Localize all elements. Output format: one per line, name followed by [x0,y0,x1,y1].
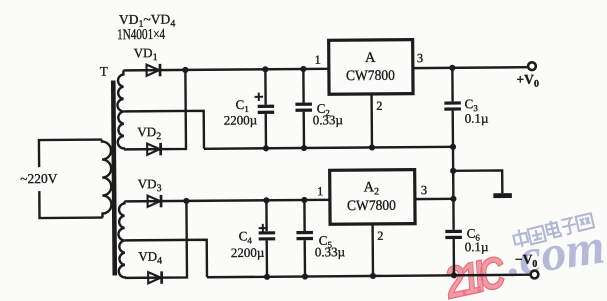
wire bottom rail [207,275,530,278]
capacitor C4 [258,200,275,277]
svg-text:2200µ: 2200µ [224,112,258,127]
junction node C2 top [300,66,306,72]
transformer T primary winding [102,140,112,218]
junction node C6 bottom [451,272,457,278]
svg-text:3: 3 [421,183,427,197]
svg-text:A: A [365,50,376,66]
junction node bus / upper ground [450,144,456,150]
wire upper ground bus [204,147,453,149]
wire VD4 branch [124,201,187,278]
junction node bus / ground tap [450,168,456,174]
plus sign C1 [255,93,264,101]
regulator U2 A2 CW7800 [330,170,415,225]
junction node C5 bottom [302,273,308,279]
svg-text:3: 3 [417,51,423,65]
junction node pin2 U2 / bottom rail [370,273,376,279]
capacitor C2 [295,69,312,148]
wire S2 top lead / lower pin1 rail [124,200,328,202]
svg-text:~220V: ~220V [20,171,58,186]
junction node pin2 U1 / ground bus [369,144,375,150]
pseudo CJK glyphs [512,228,529,249]
svg-text:VD1: VD1 [134,45,158,63]
wire U2 pin3 to bus [415,198,453,201]
plus sign C4 [259,224,268,232]
diode VD4 [148,271,163,284]
svg-text:T: T [100,64,108,79]
svg-text:2200µ: 2200µ [231,245,265,260]
junction node C4 bottom [264,274,270,280]
terminal -V0 [531,271,539,279]
svg-text:0.1µ: 0.1µ [465,111,489,126]
capacitor C6 [445,230,462,276]
svg-text:+V0: +V0 [516,72,539,90]
capacitor C3 [444,68,461,111]
pin 2 wire U2 [371,224,374,276]
transformer secondary winding S1 [117,70,124,149]
diode VD2 [147,143,162,156]
svg-text:VD4: VD4 [138,249,162,267]
junction node C1 top [262,66,268,72]
terminal +V0 [528,62,536,70]
junction node top rail / VD2 [182,67,188,73]
svg-text:VD2: VD2 [137,124,161,142]
svg-text:1: 1 [314,53,320,67]
svg-text:2: 2 [376,99,382,113]
wire S2 center tap to bottom rail [125,240,207,278]
capacitor C5 [296,200,313,277]
wire ground tap [453,170,502,193]
svg-text:−V0: −V0 [515,252,538,270]
diode VD1 [147,64,162,77]
diode VD3 [148,195,163,208]
regulator U1 A CW7800 [329,40,413,95]
svg-text:CW7800: CW7800 [347,198,396,214]
transformer T core [111,80,117,275]
junction node lower rail / VD4 [183,198,189,204]
svg-text:0.33µ: 0.33µ [315,244,346,259]
wire VD2 branch [123,70,186,149]
svg-text:VD3: VD3 [138,176,162,194]
junction node C1 bottom [263,145,269,151]
svg-text:1: 1 [317,184,323,198]
pin 2 wire U1 [370,94,373,147]
svg-text:A2: A2 [363,179,379,197]
junction node U2 pin3 / bus [450,196,456,202]
svg-text:C4: C4 [239,228,253,245]
junction node C2 bottom [301,145,307,151]
junction node C5 top [301,197,307,203]
wire S1 center tap to ground bus [124,111,204,150]
junction node C3 top [449,65,455,71]
wire top rail [123,67,528,70]
svg-text:2: 2 [377,229,383,243]
wire right vertical bus [451,111,454,230]
svg-text:0.33µ: 0.33µ [313,112,344,127]
transformer T primary loop [39,140,103,218]
svg-text:CW7800: CW7800 [346,68,395,84]
svg-text:1N4001×4: 1N4001×4 [117,27,165,43]
capacitor C1 [257,69,274,148]
ground [493,193,512,198]
junction node C4 top [263,197,269,203]
transformer secondary winding S2 [118,201,125,278]
svg-text:0.1µ: 0.1µ [465,239,489,254]
